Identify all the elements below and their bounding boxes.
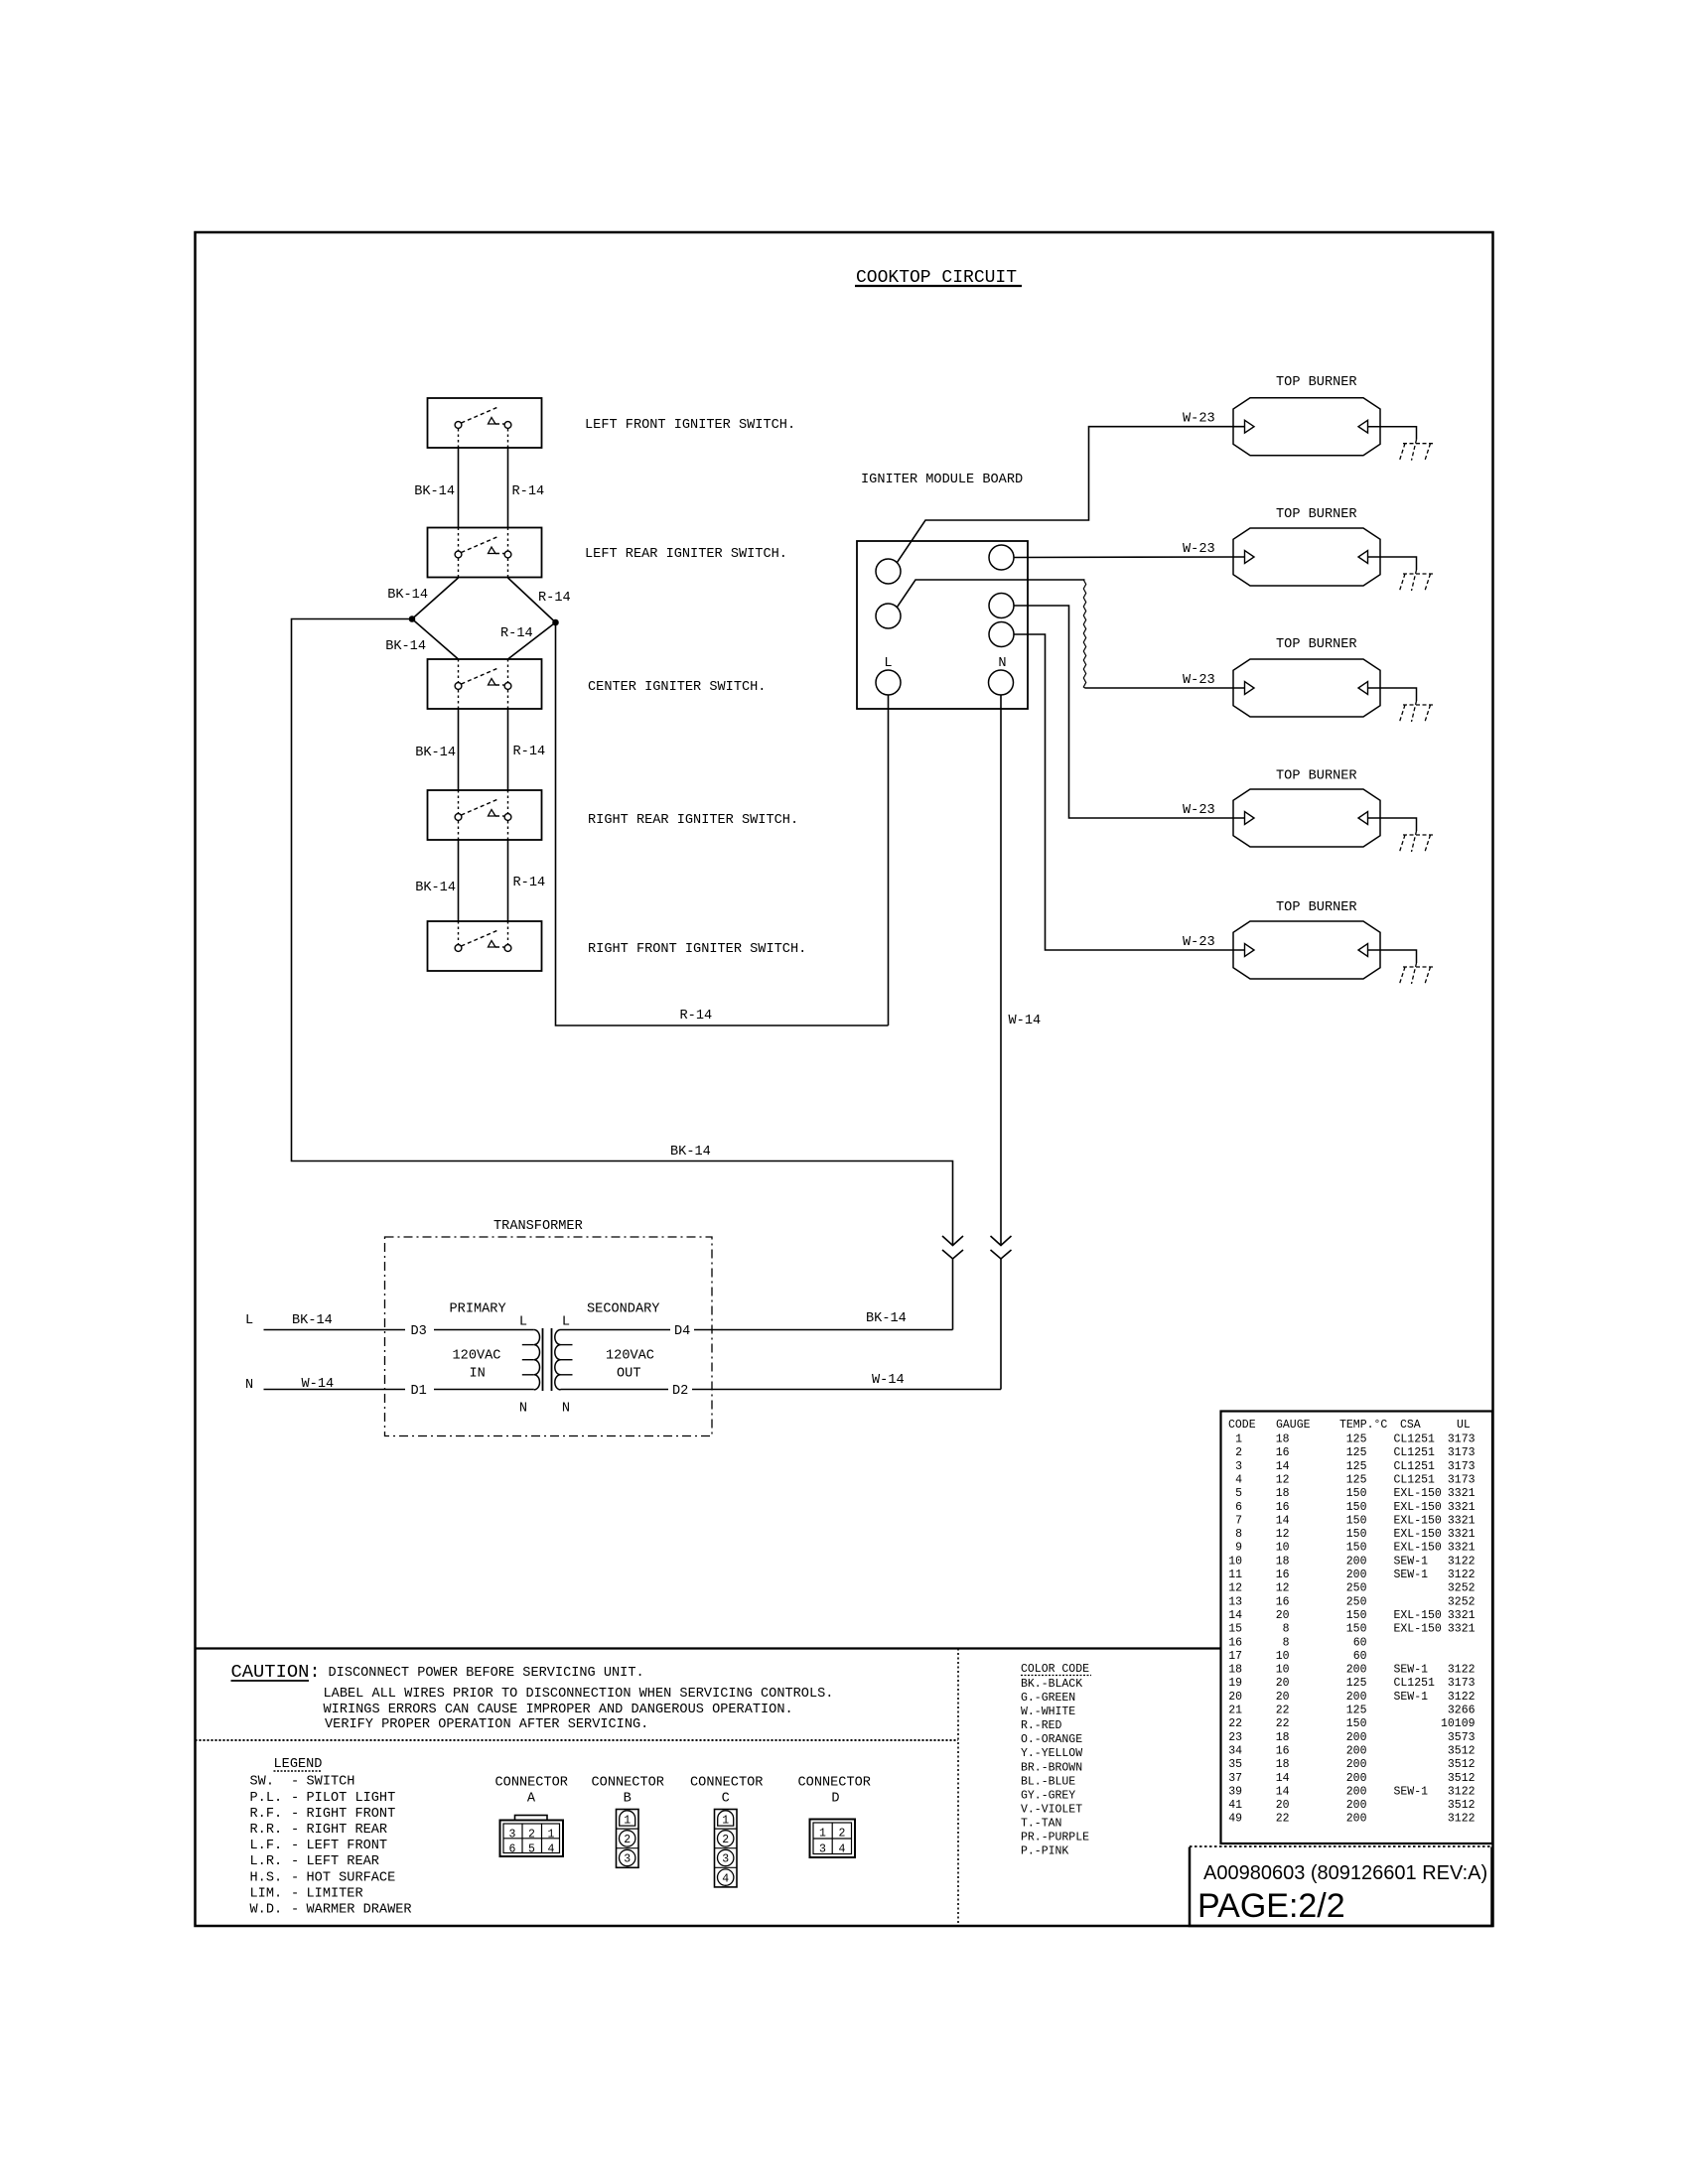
- svg-text:10: 10: [1228, 1555, 1242, 1568]
- svg-text:39: 39: [1228, 1785, 1242, 1798]
- connector D body: [810, 1820, 856, 1858]
- svg-text:R-14: R-14: [680, 1009, 713, 1024]
- svg-text:250: 250: [1346, 1595, 1367, 1608]
- svg-text:D3: D3: [411, 1324, 427, 1339]
- svg-text:3122: 3122: [1448, 1785, 1476, 1798]
- svg-text:12: 12: [1276, 1474, 1290, 1487]
- wire S3 to S4 BK-14: [458, 709, 460, 790]
- svg-text:3573: 3573: [1448, 1731, 1476, 1744]
- svg-text:12: 12: [1276, 1528, 1290, 1541]
- svg-text:150: 150: [1346, 1609, 1367, 1622]
- svg-text:CAUTION:: CAUTION:: [231, 1661, 321, 1683]
- svg-text:13: 13: [1228, 1595, 1242, 1608]
- connector chevron pair on BK-14 wire: [942, 1236, 963, 1246]
- svg-text:BK-14: BK-14: [415, 881, 456, 895]
- svg-text:N: N: [562, 1402, 570, 1417]
- svg-text:CONNECTOR: CONNECTOR: [690, 1776, 763, 1791]
- svg-text:V.-VIOLET: V.-VIOLET: [1021, 1803, 1082, 1816]
- spark electrode (ground comb) B1: [1400, 440, 1434, 461]
- svg-text:150: 150: [1346, 1528, 1367, 1541]
- svg-text:SWITCH: SWITCH: [307, 1775, 355, 1790]
- svg-text:BK-14: BK-14: [385, 639, 426, 654]
- svg-text:N: N: [519, 1402, 527, 1417]
- svg-text:CL1251: CL1251: [1394, 1460, 1436, 1473]
- svg-text:W.D.: W.D.: [250, 1903, 283, 1918]
- svg-text:LEFT REAR IGNITER SWITCH.: LEFT REAR IGNITER SWITCH.: [585, 547, 787, 562]
- wire table row code 8: [1235, 1528, 1476, 1541]
- svg-text:-: -: [291, 1870, 299, 1885]
- svg-text:34: 34: [1228, 1745, 1242, 1758]
- svg-text:BK-14: BK-14: [866, 1311, 907, 1326]
- svg-text:LABEL ALL WIRES PRIOR TO DISCO: LABEL ALL WIRES PRIOR TO DISCONNECTION W…: [324, 1687, 834, 1702]
- wire table row code 41: [1228, 1799, 1475, 1812]
- svg-text:200: 200: [1346, 1731, 1367, 1744]
- spark electrode (ground comb) B4: [1400, 831, 1434, 852]
- wire W-14 lower segment to D2 line: [1000, 1259, 1002, 1390]
- svg-text:3: 3: [509, 1829, 516, 1842]
- svg-text:-: -: [291, 1886, 299, 1901]
- svg-text:GY.-GREY: GY.-GREY: [1021, 1789, 1075, 1802]
- svg-text:W-23: W-23: [1183, 673, 1215, 688]
- svg-text:1: 1: [722, 1815, 729, 1828]
- svg-text:EXL-150: EXL-150: [1394, 1609, 1442, 1622]
- svg-text:LIM.: LIM.: [250, 1886, 283, 1901]
- svg-text:TOP BURNER: TOP BURNER: [1276, 637, 1357, 652]
- transformer core: [542, 1328, 544, 1391]
- svg-text:H.S.: H.S.: [250, 1870, 283, 1885]
- svg-text:A: A: [527, 1792, 536, 1807]
- title block box: [1190, 1847, 1492, 1927]
- svg-text:4: 4: [722, 1872, 729, 1885]
- svg-text:3321: 3321: [1448, 1487, 1476, 1500]
- svg-text:8: 8: [1283, 1636, 1290, 1649]
- svg-text:W-23: W-23: [1183, 935, 1215, 950]
- svg-text:14: 14: [1276, 1785, 1290, 1798]
- svg-text:SEW-1: SEW-1: [1394, 1569, 1429, 1581]
- wire table row code 15: [1228, 1623, 1475, 1636]
- arrow terminal right B5: [1358, 944, 1368, 957]
- svg-text:RIGHT FRONT: RIGHT FRONT: [307, 1807, 396, 1822]
- svg-text:W-14: W-14: [872, 1373, 905, 1388]
- svg-text:3512: 3512: [1448, 1799, 1476, 1812]
- svg-text:TRANSFORMER: TRANSFORMER: [493, 1219, 583, 1234]
- svg-text:5: 5: [528, 1843, 535, 1855]
- svg-text:250: 250: [1346, 1582, 1367, 1595]
- svg-text:125: 125: [1346, 1446, 1367, 1459]
- wire table row code 17: [1228, 1650, 1366, 1663]
- wire B5 right lead to electrode: [1368, 950, 1417, 963]
- wire table row code 1: [1235, 1433, 1476, 1446]
- svg-text:D: D: [831, 1792, 839, 1807]
- svg-text:PRIMARY: PRIMARY: [450, 1302, 506, 1317]
- module terminal T3 (mid left): [876, 604, 901, 628]
- module terminal N: [989, 670, 1014, 695]
- svg-text:200: 200: [1346, 1772, 1367, 1785]
- svg-text:CODE: CODE: [1228, 1419, 1256, 1432]
- connector C body: [715, 1810, 738, 1887]
- transformer dashed enclosure: [385, 1237, 713, 1436]
- wire diagonal R-14 from node J2 to S3: [508, 622, 556, 659]
- wire table row code 49: [1228, 1813, 1475, 1826]
- svg-text:17: 17: [1228, 1650, 1242, 1663]
- svg-text:1: 1: [1235, 1433, 1242, 1446]
- switch symbol S1 contacts and blade: [455, 408, 511, 449]
- wire S4 to S5 R-14: [507, 840, 509, 921]
- arrow terminal left B1: [1245, 420, 1255, 433]
- svg-text:O.-ORANGE: O.-ORANGE: [1021, 1733, 1082, 1746]
- arrow terminal left B5: [1245, 944, 1255, 957]
- wire S4 to S5 BK-14: [458, 840, 460, 921]
- svg-text:W-23: W-23: [1183, 803, 1215, 818]
- svg-text:GAUGE: GAUGE: [1276, 1419, 1311, 1432]
- arrow terminal right B2: [1358, 551, 1368, 564]
- svg-text:P.L.: P.L.: [250, 1791, 283, 1806]
- svg-text:L: L: [884, 656, 892, 671]
- svg-text:CONNECTOR: CONNECTOR: [495, 1776, 568, 1791]
- top burner B3 octagon: [1233, 659, 1380, 717]
- wire BK-14 main run: J1 left, down, right to transformer secondary side: [292, 619, 953, 1246]
- svg-text:1: 1: [548, 1829, 555, 1842]
- svg-text:EXL-150: EXL-150: [1394, 1542, 1442, 1555]
- svg-text:BK-14: BK-14: [292, 1313, 333, 1328]
- svg-text:RIGHT REAR IGNITER SWITCH.: RIGHT REAR IGNITER SWITCH.: [588, 813, 798, 828]
- svg-text:N: N: [998, 656, 1006, 671]
- svg-text:3: 3: [624, 1853, 631, 1866]
- svg-text:TOP BURNER: TOP BURNER: [1276, 507, 1357, 522]
- svg-text:EXL-150: EXL-150: [1394, 1487, 1442, 1500]
- igniter switch S3 box (CENTER IGNITER SWITCH): [428, 659, 542, 709]
- wire B3 right lead to electrode: [1368, 688, 1417, 701]
- svg-text:8: 8: [1283, 1623, 1290, 1636]
- svg-text:4: 4: [839, 1843, 846, 1855]
- svg-text:B: B: [624, 1792, 632, 1807]
- svg-text:150: 150: [1346, 1623, 1367, 1636]
- svg-text:VERIFY PROPER OPERATION AFTER: VERIFY PROPER OPERATION AFTER SERVICING.: [325, 1717, 648, 1732]
- svg-text:CENTER IGNITER SWITCH.: CENTER IGNITER SWITCH.: [588, 680, 766, 695]
- wire table row code 6: [1235, 1501, 1476, 1514]
- svg-text:150: 150: [1346, 1501, 1367, 1514]
- svg-text:120VAC: 120VAC: [606, 1349, 654, 1364]
- module terminal T2 (top right): [989, 545, 1014, 570]
- svg-text:IGNITER MODULE BOARD: IGNITER MODULE BOARD: [861, 473, 1023, 487]
- wire table row code 35: [1228, 1758, 1475, 1771]
- svg-text:BK-14: BK-14: [415, 746, 456, 760]
- svg-text:8: 8: [1235, 1528, 1242, 1541]
- svg-text:3122: 3122: [1448, 1569, 1476, 1581]
- wire T3 to top burner B3 (zigzag drop): [897, 580, 1084, 608]
- svg-text:CSA: CSA: [1400, 1419, 1421, 1432]
- arrow terminal left B3: [1245, 682, 1255, 695]
- wire table row code 12: [1228, 1582, 1475, 1595]
- wire D4 output (BK-14): [561, 1329, 671, 1331]
- switch symbol S4 contacts and blade: [455, 790, 511, 840]
- wire table row code 7: [1235, 1514, 1476, 1527]
- svg-text:18: 18: [1276, 1487, 1290, 1500]
- svg-text:12: 12: [1276, 1582, 1290, 1595]
- svg-text:22: 22: [1276, 1705, 1290, 1717]
- svg-text:G.-GREEN: G.-GREEN: [1021, 1692, 1075, 1705]
- svg-text:3266: 3266: [1448, 1705, 1476, 1717]
- wire table row code 5: [1235, 1487, 1476, 1500]
- svg-text:RIGHT FRONT IGNITER SWITCH.: RIGHT FRONT IGNITER SWITCH.: [588, 942, 806, 957]
- module terminal L: [876, 670, 901, 695]
- wire L / BK-14 into D3: [264, 1329, 406, 1331]
- svg-text:19: 19: [1228, 1677, 1242, 1690]
- svg-text:10: 10: [1276, 1664, 1290, 1677]
- svg-text:3321: 3321: [1448, 1623, 1476, 1636]
- svg-text:Y.-YELLOW: Y.-YELLOW: [1021, 1747, 1082, 1760]
- svg-text:SEW-1: SEW-1: [1394, 1785, 1429, 1798]
- svg-text:BL.-BLUE: BL.-BLUE: [1021, 1775, 1075, 1788]
- svg-text:2: 2: [528, 1829, 535, 1842]
- separator dotted line below caution: [196, 1739, 959, 1741]
- svg-text:3122: 3122: [1448, 1664, 1476, 1677]
- svg-text:W-23: W-23: [1183, 542, 1215, 557]
- svg-text:-: -: [291, 1807, 299, 1822]
- svg-text:RIGHT REAR: RIGHT REAR: [307, 1823, 388, 1838]
- wire table row code 16: [1228, 1636, 1366, 1649]
- svg-text:35: 35: [1228, 1758, 1242, 1771]
- svg-text:TEMP.°C: TEMP.°C: [1339, 1419, 1387, 1432]
- switch symbol S3 contacts and blade: [455, 659, 511, 709]
- svg-text:16: 16: [1228, 1636, 1242, 1649]
- svg-text:C: C: [722, 1792, 730, 1807]
- svg-text:37: 37: [1228, 1772, 1242, 1785]
- svg-text:3173: 3173: [1448, 1677, 1476, 1690]
- svg-text:3512: 3512: [1448, 1745, 1476, 1758]
- svg-text:20: 20: [1228, 1691, 1242, 1704]
- svg-text:14: 14: [1276, 1514, 1290, 1527]
- top burner B2 octagon: [1233, 528, 1380, 586]
- svg-text:150: 150: [1346, 1514, 1367, 1527]
- spark electrode (ground comb) B5: [1400, 963, 1434, 984]
- caution section top border: [196, 1647, 1221, 1649]
- wire module N terminal down (W-14): [1000, 695, 1002, 1245]
- svg-text:60: 60: [1353, 1650, 1367, 1663]
- svg-text:21: 21: [1228, 1705, 1242, 1717]
- svg-text:IN: IN: [470, 1367, 486, 1382]
- wire diagonal BK-14 from S2 to node J1: [412, 578, 459, 619]
- svg-text:-: -: [291, 1775, 299, 1790]
- svg-text:16: 16: [1276, 1569, 1290, 1581]
- wire diagonal BK-14 from node J1 to S3: [412, 619, 459, 660]
- svg-text:LIMITER: LIMITER: [307, 1886, 363, 1901]
- svg-text:SEW-1: SEW-1: [1394, 1664, 1429, 1677]
- svg-text:CL1251: CL1251: [1394, 1446, 1436, 1459]
- igniter switch S2 box (LEFT REAR IGNITER SWITCH): [428, 528, 542, 578]
- svg-text:4: 4: [548, 1843, 555, 1855]
- svg-text:TOP BURNER: TOP BURNER: [1276, 900, 1357, 915]
- svg-text:R-14: R-14: [500, 626, 533, 641]
- svg-text:3173: 3173: [1448, 1446, 1476, 1459]
- svg-text:-: -: [291, 1839, 299, 1853]
- svg-text:22: 22: [1228, 1717, 1242, 1730]
- svg-text:L: L: [519, 1315, 527, 1330]
- svg-text:16: 16: [1276, 1745, 1290, 1758]
- svg-text:200: 200: [1346, 1691, 1367, 1704]
- wire T4 to top burner B4: [1014, 606, 1244, 818]
- svg-text:22: 22: [1276, 1717, 1290, 1730]
- svg-text:3122: 3122: [1448, 1813, 1476, 1826]
- svg-text:3321: 3321: [1448, 1501, 1476, 1514]
- svg-text:SW.: SW.: [250, 1775, 274, 1790]
- wire table row code 14: [1228, 1609, 1475, 1622]
- arrow terminal right B3: [1358, 682, 1368, 695]
- switch symbol S5 contacts and blade: [455, 921, 511, 951]
- svg-text:R.F.: R.F.: [250, 1807, 283, 1822]
- top burner B1 octagon: [1233, 398, 1380, 456]
- arrow terminal right B1: [1358, 420, 1368, 433]
- wire table row code 11: [1228, 1569, 1475, 1581]
- svg-text:18: 18: [1276, 1555, 1290, 1568]
- wire table row code 4: [1235, 1474, 1476, 1487]
- igniter module board box: [857, 541, 1028, 709]
- svg-text:200: 200: [1346, 1758, 1367, 1771]
- wire S3 to S4 R-14: [507, 709, 509, 790]
- svg-text:L.F.: L.F.: [250, 1839, 283, 1853]
- svg-text:3173: 3173: [1448, 1474, 1476, 1487]
- svg-text:3512: 3512: [1448, 1772, 1476, 1785]
- svg-text:125: 125: [1346, 1705, 1367, 1717]
- svg-text:LEFT REAR: LEFT REAR: [307, 1854, 379, 1869]
- svg-text:150: 150: [1346, 1487, 1367, 1500]
- svg-text:P.-PINK: P.-PINK: [1021, 1845, 1068, 1858]
- secondary winding coil: [555, 1330, 561, 1390]
- border frame: [196, 232, 1493, 1926]
- wire T1 to top burner B1: [897, 427, 1244, 563]
- svg-text:200: 200: [1346, 1785, 1367, 1798]
- svg-text:200: 200: [1346, 1569, 1367, 1581]
- svg-text:SECONDARY: SECONDARY: [587, 1302, 659, 1317]
- svg-text:5: 5: [1235, 1487, 1242, 1500]
- svg-text:EXL-150: EXL-150: [1394, 1501, 1442, 1514]
- svg-text:3252: 3252: [1448, 1582, 1476, 1595]
- svg-text:BK-14: BK-14: [670, 1145, 711, 1160]
- arrow terminal left B4: [1245, 812, 1255, 825]
- svg-text:-: -: [291, 1854, 299, 1869]
- svg-text:PAGE:2/2: PAGE:2/2: [1197, 1887, 1345, 1925]
- svg-text:L: L: [562, 1315, 570, 1330]
- connector A body: [500, 1816, 564, 1857]
- svg-text:200: 200: [1346, 1799, 1367, 1812]
- igniter switch S1 box (LEFT FRONT IGNITER SWITCH): [428, 398, 542, 448]
- svg-text:2: 2: [1235, 1446, 1242, 1459]
- wire BK-14 lower segment to D4 line: [952, 1259, 954, 1330]
- svg-text:R.R.: R.R.: [250, 1823, 283, 1838]
- wire diagonal R-14 from S2 to node J2: [508, 578, 556, 622]
- wire B2 right lead to electrode: [1368, 557, 1417, 570]
- wire BK-14 S1 to S2: [458, 448, 460, 528]
- svg-text:UL: UL: [1457, 1419, 1471, 1432]
- connector B body: [617, 1810, 639, 1868]
- svg-text:125: 125: [1346, 1433, 1367, 1446]
- svg-text:PILOT LIGHT: PILOT LIGHT: [307, 1791, 396, 1806]
- wire table row code 23: [1228, 1731, 1475, 1744]
- svg-text:120VAC: 120VAC: [453, 1349, 501, 1364]
- svg-text:20: 20: [1276, 1609, 1290, 1622]
- svg-text:-: -: [291, 1823, 299, 1838]
- svg-text:6: 6: [509, 1843, 516, 1855]
- svg-text:3321: 3321: [1448, 1609, 1476, 1622]
- svg-text:150: 150: [1346, 1717, 1367, 1730]
- node J2 junction dot: [553, 619, 559, 625]
- svg-text:3: 3: [722, 1853, 729, 1866]
- svg-text:TOP BURNER: TOP BURNER: [1276, 769, 1357, 784]
- svg-text:49: 49: [1228, 1813, 1242, 1826]
- svg-text:BK-14: BK-14: [387, 588, 428, 603]
- spark electrode (ground comb) B2: [1400, 570, 1434, 591]
- wire table row code 19: [1228, 1677, 1475, 1690]
- svg-text:2: 2: [839, 1828, 846, 1841]
- svg-text:200: 200: [1346, 1745, 1367, 1758]
- svg-text:125: 125: [1346, 1460, 1367, 1473]
- wire table row code 20: [1228, 1691, 1475, 1704]
- wire table row code 13: [1228, 1595, 1475, 1608]
- svg-text:W-14: W-14: [1009, 1014, 1042, 1028]
- wire T5 to top burner B5: [1014, 634, 1244, 950]
- svg-text:20: 20: [1276, 1677, 1290, 1690]
- switch symbol S2 contacts and blade: [455, 528, 511, 578]
- svg-text:16: 16: [1276, 1501, 1290, 1514]
- wire table row code 34: [1228, 1745, 1475, 1758]
- svg-text:R-14: R-14: [538, 591, 571, 606]
- top burner B4 octagon: [1233, 789, 1380, 847]
- svg-text:10: 10: [1276, 1650, 1290, 1663]
- svg-text:60: 60: [1353, 1636, 1367, 1649]
- svg-text:14: 14: [1276, 1460, 1290, 1473]
- svg-text:3122: 3122: [1448, 1555, 1476, 1568]
- wire table row code 18: [1228, 1664, 1475, 1677]
- svg-text:3: 3: [1235, 1460, 1242, 1473]
- igniter switch S5 box (RIGHT FRONT IGNITER SWITCH): [428, 921, 542, 971]
- svg-text:3173: 3173: [1448, 1460, 1476, 1473]
- wire table row code 9: [1235, 1542, 1476, 1555]
- igniter switch S4 box (RIGHT REAR IGNITER SWITCH): [428, 790, 542, 840]
- svg-text:L: L: [245, 1313, 253, 1328]
- svg-text:-: -: [291, 1903, 299, 1918]
- wire table row code 3: [1235, 1460, 1476, 1473]
- svg-text:T.-TAN: T.-TAN: [1021, 1818, 1061, 1831]
- wire N / W-14 into D1: [264, 1389, 406, 1391]
- svg-text:CL1251: CL1251: [1394, 1433, 1436, 1446]
- arrow terminal right B4: [1358, 812, 1368, 825]
- svg-text:R-14: R-14: [513, 745, 546, 759]
- svg-text:3512: 3512: [1448, 1758, 1476, 1771]
- svg-text:16: 16: [1276, 1595, 1290, 1608]
- svg-text:18: 18: [1276, 1731, 1290, 1744]
- wire module L terminal down to R-14: [888, 695, 890, 1025]
- svg-text:6: 6: [1235, 1501, 1242, 1514]
- svg-text:-: -: [291, 1791, 299, 1806]
- wire R-14 S1 to S2: [507, 448, 509, 528]
- svg-text:DISCONNECT POWER BEFORE SERVIC: DISCONNECT POWER BEFORE SERVICING UNIT.: [329, 1666, 644, 1681]
- svg-text:1: 1: [624, 1815, 631, 1828]
- wire R-14: J2 down, right to module L terminal: [556, 622, 889, 1025]
- wire table row code 10: [1228, 1555, 1475, 1568]
- wire table row code 22: [1228, 1717, 1475, 1730]
- svg-text:TOP BURNER: TOP BURNER: [1276, 375, 1357, 390]
- wire table row code 39: [1228, 1785, 1475, 1798]
- svg-text:150: 150: [1346, 1542, 1367, 1555]
- node J1 junction dot: [409, 616, 415, 622]
- svg-text:22: 22: [1276, 1813, 1290, 1826]
- svg-text:COLOR CODE: COLOR CODE: [1021, 1663, 1089, 1676]
- svg-text:CONNECTOR: CONNECTOR: [592, 1776, 664, 1791]
- svg-text:3321: 3321: [1448, 1528, 1476, 1541]
- svg-text:15: 15: [1228, 1623, 1242, 1636]
- svg-text:14: 14: [1276, 1772, 1290, 1785]
- svg-text:3173: 3173: [1448, 1433, 1476, 1446]
